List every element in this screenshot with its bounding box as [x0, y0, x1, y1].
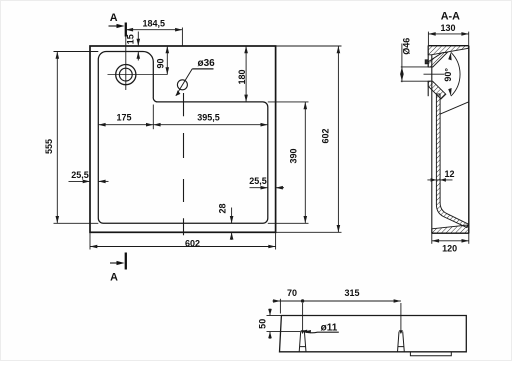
svg-text:180: 180 — [237, 69, 247, 84]
dim 602 bottom: line, arrows, ext lines, text — [90, 232, 276, 249]
hole 36 leader line — [176, 69, 192, 96]
dim 184,5: line, arrows, ext, text — [126, 28, 183, 47]
dim 25,5 right: lines, arrows, text — [250, 187, 285, 189]
hatched lower drain cone wall — [428, 81, 446, 99]
svg-text:395,5: 395,5 — [197, 112, 220, 122]
svg-text:184,5: 184,5 — [143, 19, 166, 29]
label diameter 11 with leader — [301, 330, 307, 333]
outer square (plan view body 602x602) — [90, 46, 276, 232]
section marker A top: arrow — [109, 25, 120, 27]
section marker A bottom: bar — [125, 253, 127, 270]
section top edge — [428, 45, 469, 47]
drain centerline in section — [424, 73, 445, 75]
hatched flange (top rim cross-section) — [428, 46, 469, 55]
dim 12 (wall thickness): line, arrows, text — [427, 179, 452, 181]
svg-text:12: 12 — [444, 169, 454, 179]
hatched upper drain cone wall — [428, 52, 447, 67]
section marker A bottom: arrow — [110, 262, 119, 264]
svg-text:90°: 90° — [443, 68, 453, 82]
section marker A top: bar — [125, 23, 127, 37]
hatched base band — [432, 225, 469, 233]
svg-text:ø11: ø11 — [321, 323, 338, 334]
svg-text:175: 175 — [116, 113, 131, 123]
mounting boss 2 — [398, 332, 405, 352]
svg-text:50: 50 — [258, 319, 268, 329]
outer face of body wall — [431, 55, 433, 234]
drain horizontal centerline — [108, 74, 168, 76]
hole 36 circle — [177, 80, 187, 90]
svg-text:Ø46: Ø46 — [401, 38, 411, 55]
svg-text:25,5: 25,5 — [71, 170, 89, 180]
dim 602 right: line, arrows, ext lines, text — [276, 46, 342, 232]
dim 555: line, arrows, ext lines, text — [54, 52, 99, 224]
drain vertical centerline / cutting line — [125, 37, 127, 91]
section bottom edge — [432, 232, 469, 234]
mounting boss 1 — [299, 332, 306, 352]
dim 15 (top margin): line, arrows, text — [137, 32, 139, 61]
bottom lip recess — [410, 352, 451, 356]
90 degree angle arc with arrows — [451, 52, 460, 96]
svg-text:555: 555 — [44, 139, 54, 154]
svg-text:15: 15 — [126, 34, 136, 44]
dim 395,5: line, arrows, text — [153, 124, 267, 126]
svg-text:A: A — [110, 12, 118, 24]
dim 120: ext stubs, line, arrows, text — [432, 233, 469, 244]
svg-text:90: 90 — [155, 58, 165, 68]
drain hole outer circle — [116, 65, 136, 85]
svg-text:120: 120 — [442, 244, 457, 254]
hole 36 leader arrowhead — [176, 90, 181, 96]
boss 2 top mark — [399, 330, 403, 334]
dim 175: line, arrows, junction ext, text — [98, 105, 153, 130]
dim diameter 46: ext lines, dim line, arrows, text — [401, 44, 431, 83]
drain hole inner circle — [119, 68, 132, 81]
hatched wall band with bottom bend — [436, 94, 468, 228]
svg-text:28: 28 — [217, 203, 227, 213]
dim 90 (top edge to drain): line, arrows, text — [166, 46, 168, 75]
inner tray outline with tab and step — [98, 52, 267, 224]
svg-text:315: 315 — [344, 288, 359, 298]
section left edge upper — [427, 46, 429, 67]
dim 50: ext lines, dim line, arrows, text — [267, 309, 301, 340]
svg-text:602: 602 — [321, 128, 331, 143]
boss 1 top mark — [301, 330, 305, 334]
dim 315: line, ext, arrow, text — [303, 301, 401, 331]
section left edge lower — [427, 81, 429, 96]
dim 28 (bottom margin): lines, arrows, text — [231, 208, 233, 240]
svg-text:390: 390 — [289, 148, 299, 163]
svg-text:A: A — [110, 272, 118, 284]
side view body outline — [280, 316, 467, 352]
svg-text:ø36: ø36 — [198, 58, 216, 69]
dim 180 (top edge to step): line, arrows, text — [245, 46, 247, 102]
svg-text:130: 130 — [440, 23, 455, 33]
dim 390: line, arrows, ext lines, text — [268, 102, 309, 223]
svg-text:25,5: 25,5 — [249, 176, 267, 186]
svg-text:602: 602 — [185, 238, 200, 248]
svg-text:A-A: A-A — [441, 11, 460, 23]
bowl floor slant line — [440, 102, 469, 114]
rim lip notch — [425, 60, 428, 64]
dashed centerline through hole 36 — [183, 93, 185, 235]
svg-text:70: 70 — [287, 288, 297, 298]
section right edge — [468, 46, 470, 234]
dim 25,5 left: lines, arrows, text — [69, 180, 109, 182]
dim 70: ext lines, line segment, arrow, text — [273, 299, 303, 331]
